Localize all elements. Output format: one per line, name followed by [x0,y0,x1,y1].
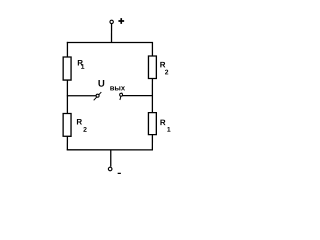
svg-text:вых: вых [110,83,126,92]
svg-text:R: R [160,60,166,69]
wire top rail [67,41,153,43]
wire left vertical upper [66,42,68,57]
node output terminal right (Uvyh) [120,93,122,100]
wire right vertical lower [151,135,153,151]
wire to bottom terminal [110,150,112,167]
terminal bottom (- supply) [108,167,112,171]
resistor R1 (top-left) [63,57,71,80]
svg-text:R: R [160,118,166,127]
wire from + terminal to top rail [111,24,113,43]
wire output left [67,95,96,97]
wire output right [122,95,153,97]
wire left vertical middle [66,80,68,113]
node output terminal left (Uvyh) [94,92,102,100]
terminal top (+ supply) [110,20,113,23]
resistor R2 (bottom-left) [63,113,71,136]
svg-text:R: R [76,117,82,126]
svg-text:1: 1 [167,127,171,134]
resistor R2 (top-right) [148,56,156,79]
wire right vertical upper [151,42,153,56]
svg-text:2: 2 [165,69,169,76]
wire bottom rail [67,149,153,151]
label + [118,18,124,24]
svg-text:1: 1 [81,64,85,71]
resistor R1 (bottom-right) [148,113,156,135]
svg-text:2: 2 [83,127,87,134]
wire left vertical lower [66,136,68,150]
wire right vertical middle [151,79,153,113]
svg-text:U: U [98,79,105,90]
label - [118,172,121,174]
